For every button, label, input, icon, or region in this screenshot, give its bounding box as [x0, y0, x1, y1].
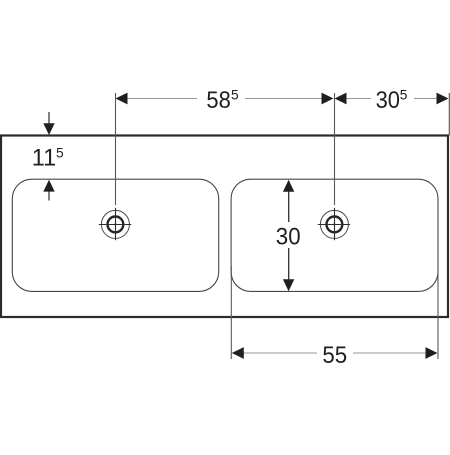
dimension 30.5 line left segment: [346, 98, 371, 100]
dimension 30.5 line right segment: [414, 98, 437, 100]
extension line left tap hole: [115, 93, 117, 205]
svg-text:58: 58: [206, 87, 230, 114]
dimension 55 arrow right: [426, 347, 438, 359]
dimension 30.5 arrow right: [437, 93, 449, 105]
tap hole left center dot: [114, 223, 116, 225]
tap hole left crosshair vertical: [115, 208, 117, 240]
tap hole right crosshair vertical: [334, 208, 336, 240]
tap hole right center dot: [333, 223, 335, 225]
svg-text:11: 11: [32, 145, 56, 172]
dimension 55 line right segment: [353, 352, 426, 354]
dimension 55 arrow left: [232, 347, 244, 359]
tap hole left crosshair horizontal: [99, 224, 131, 226]
svg-text:5: 5: [400, 88, 408, 103]
dimension 58.5 line left segment: [127, 98, 197, 100]
basin left: [12, 179, 218, 291]
tap hole right inner circle: [327, 217, 343, 233]
dimension 58.5 arrow right: [322, 93, 334, 105]
tap hole left outer circle: [101, 210, 129, 238]
extension line right edge: [448, 93, 450, 136]
tap hole right outer circle: [320, 210, 348, 238]
extension line 55 right: [437, 266, 439, 359]
svg-text:5: 5: [231, 88, 239, 103]
dimension 58.5 arrow left: [116, 93, 128, 105]
dimension 11.5 arrow down: [48, 112, 50, 124]
dimension 30 vertical line bottom segment: [288, 248, 290, 280]
svg-text:5: 5: [56, 145, 64, 160]
svg-text:30: 30: [276, 223, 301, 250]
dimension 55 line left segment: [243, 352, 317, 354]
dimension 11.5 arrow up: [48, 191, 50, 201]
dimension 30 arrow up: [283, 180, 294, 192]
dimension 58.5 line right segment: [245, 98, 322, 100]
extension line 55 left: [230, 266, 232, 359]
extension line right tap hole: [334, 93, 336, 205]
basin right: [231, 179, 438, 291]
svg-text:30: 30: [376, 87, 400, 114]
tap hole right crosshair horizontal: [318, 224, 350, 226]
washbasin outline: [1, 136, 448, 318]
dimension 30 arrow down: [283, 279, 294, 291]
dimension 30.5 arrow left: [335, 93, 347, 105]
svg-text:55: 55: [322, 342, 347, 369]
tap hole left inner circle: [108, 217, 124, 233]
dimension 30 vertical line top segment: [288, 191, 290, 222]
